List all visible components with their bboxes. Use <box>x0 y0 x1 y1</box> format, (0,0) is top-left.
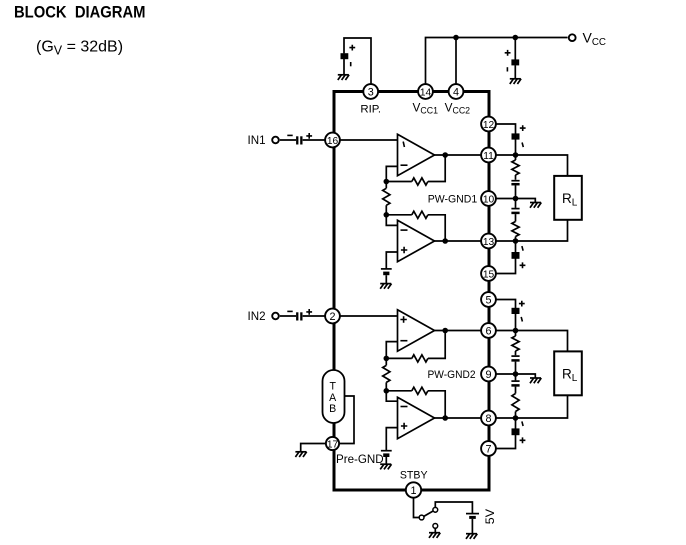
junction U3 output <box>442 328 448 334</box>
plus inside U2 <box>401 247 407 253</box>
load resistor RL1 <box>554 176 582 220</box>
plus tick inside U1 <box>403 142 404 147</box>
capacitor RIP (electrolytic) <box>341 53 349 59</box>
junction feedback node B <box>384 212 390 218</box>
svg-text:9: 9 <box>485 369 491 381</box>
svg-text:1: 1 <box>410 485 416 497</box>
junction pin 13 node <box>513 238 519 244</box>
wire cap D to pin 15 <box>497 258 516 273</box>
capacitor IN2 coupling <box>296 312 298 320</box>
minus inside U3 <box>400 340 407 342</box>
minus tick cap H <box>522 421 523 426</box>
pin 4 <box>449 84 464 99</box>
pin 17 <box>326 437 339 450</box>
ground PW-GND1 <box>530 202 541 204</box>
pin 11 <box>481 148 496 163</box>
wire U3 -input <box>386 342 397 359</box>
svg-text:5: 5 <box>485 294 491 306</box>
plus sign cap D <box>520 262 526 268</box>
svg-text:B: B <box>329 403 336 415</box>
svg-text:2: 2 <box>329 311 335 323</box>
junction Vcc rail / bypass cap <box>513 35 519 41</box>
pin 7 <box>481 441 496 456</box>
switch pivot contact <box>419 515 424 520</box>
resistor U2 feedback <box>412 211 428 218</box>
wire Vcc bypass cap <box>514 38 516 60</box>
svg-text:RIP.: RIP. <box>360 103 381 115</box>
wire cap H to pin 7 <box>497 435 516 449</box>
wire U1 output to pin 11 <box>435 154 482 156</box>
capacitor D output 13-15 (electrolytic) <box>515 241 517 252</box>
wire battery to ground <box>471 519 473 534</box>
wire RIP cap loop to pin 3 <box>344 38 371 84</box>
svg-text:14: 14 <box>420 87 432 98</box>
svg-text:Pre-GND: Pre-GND <box>336 453 384 466</box>
wire U2 -input <box>386 215 397 226</box>
wire TAB bracket to pin 17 <box>340 396 354 444</box>
wire switch to battery <box>435 502 472 513</box>
op-amp U1 <box>398 134 435 175</box>
wire cap E to pin 6 node <box>515 314 517 331</box>
svg-text:8: 8 <box>485 413 491 425</box>
minus inside U1 <box>401 164 408 166</box>
junction pin 10 node <box>513 196 519 202</box>
resistor U4 feedback <box>412 387 428 394</box>
svg-text:VCC1: VCC1 <box>413 100 439 115</box>
wire U4 -input <box>386 391 397 401</box>
svg-text:T: T <box>329 381 336 393</box>
svg-text:16: 16 <box>327 136 339 147</box>
switch lever <box>424 511 433 516</box>
svg-text:7: 7 <box>485 443 491 455</box>
plus sign RIP cap <box>349 45 355 51</box>
pin 12 <box>481 117 496 132</box>
resistor zobel R2 <box>512 222 519 237</box>
wire pin 12 to cap A <box>497 124 516 134</box>
ground open contact <box>429 532 440 534</box>
wire pin 1 to switch <box>414 498 420 518</box>
IC body outline <box>334 92 489 491</box>
switch throw contact <box>433 507 438 512</box>
pin 3 <box>363 84 378 99</box>
ground U2 input cap <box>380 283 391 285</box>
svg-text:(GV = 32dB): (GV = 32dB) <box>36 39 123 58</box>
wire pin16 to U1 +input <box>341 139 398 141</box>
plus sign IN2 cap <box>306 309 312 315</box>
svg-text:17: 17 <box>327 439 339 450</box>
wire U4 output to pin 8 <box>435 417 482 419</box>
capacitor zobel B <box>515 175 517 180</box>
capacitor E bootstrap 5-6 (electrolytic) <box>512 308 520 314</box>
resistor ch2 divider <box>385 358 387 390</box>
terminal IN2 <box>272 313 279 320</box>
capacitor H output 8-7 (electrolytic) <box>515 418 517 429</box>
pin 15 <box>481 266 496 281</box>
pin 1 <box>406 482 421 497</box>
wire open contact to ground <box>434 528 436 532</box>
junction feedback node C <box>384 356 390 362</box>
plus sign cap E <box>519 301 525 307</box>
minus inside U4 <box>401 406 408 408</box>
capacitor A bootstrap 12-11 (electrolytic) <box>512 133 520 139</box>
capacitor U2 +input bypass <box>381 268 392 270</box>
minus sign IN2 cap <box>287 310 292 312</box>
wire Vcc rail <box>426 38 568 84</box>
wire U2 output to pin 13 <box>435 240 482 242</box>
wire IN2 cap to pin 2 <box>303 315 325 317</box>
wire U3 output to pin 6 <box>435 330 482 332</box>
wire pin 5 to cap E <box>497 300 516 309</box>
wire Vcc cap to ground <box>514 65 516 79</box>
pin 13 <box>481 234 496 249</box>
junction pin 6 node <box>513 328 519 334</box>
wire RIP cap to ground <box>343 59 345 75</box>
plus sign Vcc cap <box>505 50 511 56</box>
wire cap to ground ch2 <box>385 457 387 464</box>
svg-text:PW-GND2: PW-GND2 <box>428 369 476 381</box>
pin 10 <box>481 191 496 206</box>
plus inside U3 <box>400 316 406 322</box>
wire pin 9 row to ground <box>497 374 536 378</box>
wire pin 10 row to ground <box>497 199 536 203</box>
wire pin2 to U3 +input <box>341 315 398 317</box>
svg-text:PW-GND1: PW-GND1 <box>428 193 478 205</box>
minus inside U2 <box>401 229 408 231</box>
svg-text:6: 6 <box>485 325 491 337</box>
minus tick cap E <box>521 317 522 322</box>
resistor U3 feedback <box>412 355 428 362</box>
TAB element <box>323 370 345 423</box>
wire IN1 terminal to cap <box>280 139 296 141</box>
wire pin 8 row to RL2 <box>497 395 568 418</box>
pin 14 <box>418 84 433 99</box>
junction feedback node D <box>384 388 390 394</box>
svg-text:VCC: VCC <box>583 29 607 48</box>
junction pin 8 node <box>513 415 519 421</box>
svg-text:VCC2: VCC2 <box>445 100 471 115</box>
load resistor RL2 <box>554 351 582 395</box>
pin 2 <box>325 309 340 324</box>
ground pre-gnd <box>295 451 306 453</box>
wire U1 -input <box>386 166 397 181</box>
svg-text:IN1: IN1 <box>248 134 266 147</box>
capacitor Vcc bypass (electrolytic) <box>511 59 519 65</box>
pin 16 <box>325 133 340 148</box>
minus tick cap D <box>522 246 523 251</box>
op-amp U4 <box>398 397 435 438</box>
minus tick Vcc cap <box>506 67 508 71</box>
junction feedback node A <box>384 179 390 185</box>
junction U4 output <box>442 415 448 421</box>
junction pin 11 node <box>513 152 519 158</box>
capacitor zobel G <box>515 374 517 380</box>
wire U4 +input to cap <box>386 428 397 451</box>
plus sign IN1 cap <box>306 133 312 139</box>
resistor ch1 divider <box>385 182 387 215</box>
pin 5 <box>481 292 496 307</box>
capacitor zobel F <box>515 351 517 355</box>
svg-text:BLOCK DIAGRAM: BLOCK DIAGRAM <box>14 3 146 21</box>
ground PW-GND2 <box>530 377 541 379</box>
svg-text:IN2: IN2 <box>248 310 266 323</box>
minus sign IN1 cap <box>287 134 292 136</box>
svg-text:13: 13 <box>483 237 495 248</box>
pin 6 <box>481 323 496 338</box>
open contact <box>433 524 438 529</box>
svg-text:15: 15 <box>483 269 495 280</box>
junction Vcc rail / pin4 <box>453 35 459 41</box>
terminal IN1 <box>272 137 279 144</box>
wire IN2 terminal to cap <box>280 315 296 317</box>
wire pin 11 row to RL1 <box>497 155 568 176</box>
op-amp U3 <box>398 310 435 351</box>
plus sign cap A <box>520 125 526 131</box>
op-amp U2 <box>398 220 435 261</box>
wire cap to ground ch1 <box>385 275 387 283</box>
battery 5V <box>466 514 479 519</box>
plus sign cap H <box>520 437 526 443</box>
ground battery <box>466 533 477 535</box>
minus tick cap A <box>522 143 523 148</box>
resistor zobel R1 <box>515 155 517 160</box>
wire pin 17 to ground <box>301 444 326 452</box>
junction U1 output <box>442 152 448 158</box>
svg-text:11: 11 <box>483 151 494 162</box>
svg-text:5V: 5V <box>483 508 497 524</box>
svg-text:10: 10 <box>483 194 495 205</box>
capacitor U4 +input bypass <box>381 450 392 452</box>
wire pin 4 to Vcc rail <box>455 38 457 84</box>
wire pin 13 row to RL1 <box>497 220 568 241</box>
wire U4 feedback <box>386 391 445 418</box>
resistor zobel R3 <box>515 331 517 337</box>
svg-text:12: 12 <box>483 120 495 131</box>
junction U2 output <box>442 238 448 244</box>
svg-text:STBY: STBY <box>400 470 428 482</box>
resistor zobel R4 <box>512 394 519 412</box>
ground RIP cap <box>338 74 349 76</box>
wire U2 feedback <box>386 215 445 241</box>
wire pin 6 row to RL2 <box>497 331 568 352</box>
svg-text:4: 4 <box>453 86 459 98</box>
pin 8 <box>481 411 496 426</box>
wire cap A to pin 11 node <box>515 139 517 155</box>
pin 9 <box>481 367 496 382</box>
terminal Vcc <box>569 34 576 41</box>
wire U2 +input to cap <box>386 252 397 269</box>
wire IN1 cap to pin 16 <box>303 139 325 141</box>
capacitor zobel C <box>515 199 517 208</box>
junction pin 9 node <box>513 371 519 377</box>
resistor U1 feedback <box>412 178 428 185</box>
plus inside U4 <box>401 423 407 429</box>
wire U3 feedback <box>386 331 445 359</box>
svg-text:A: A <box>329 392 337 404</box>
ground Vcc cap <box>510 78 521 80</box>
capacitor IN1 coupling <box>296 136 298 144</box>
wire U1 feedback <box>386 155 445 182</box>
minus tick RIP cap <box>350 62 352 66</box>
ground U4 input cap <box>380 463 391 465</box>
svg-text:3: 3 <box>368 86 374 98</box>
